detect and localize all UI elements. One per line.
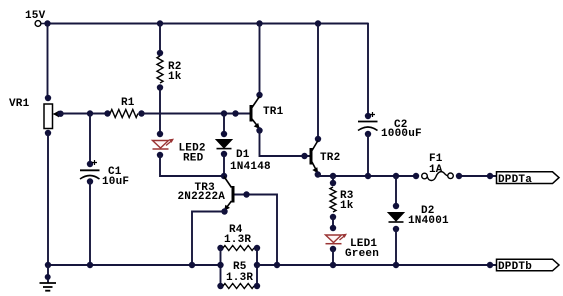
transistor TR1 [250, 92, 284, 134]
connector DPDTa [497, 172, 560, 186]
svg-text:15V: 15V [25, 10, 46, 22]
wire TR3 base to bottom right rail [235, 195, 278, 266]
svg-text:1A: 1A [429, 164, 443, 176]
capacitor C2 1000uF [358, 112, 422, 140]
node C2 rail junction [365, 173, 371, 179]
svg-text:RED: RED [183, 153, 204, 165]
capacitor C1 10uF [80, 160, 129, 188]
node TR3 emitter drop junction [189, 262, 195, 268]
wire TR1 emitter to TR2 base [260, 131, 311, 157]
node LED1 bottom junction [330, 262, 336, 268]
node D2 bottom junction [393, 262, 399, 268]
wire rail to D2 [395, 176, 397, 206]
wire LED2 to mid rail corner [160, 155, 224, 176]
transistor TR2 [310, 136, 341, 178]
svg-text:Green: Green [345, 248, 379, 260]
svg-text:10uF: 10uF [102, 176, 129, 188]
svg-text:VR1: VR1 [9, 98, 30, 110]
wire LED1 to bottom rail [332, 249, 334, 265]
svg-text:DPDTa: DPDTa [498, 174, 532, 186]
node left sense junction [217, 262, 223, 268]
wire D2 to bottom rail [395, 227, 397, 265]
fuse F1 1A [413, 153, 462, 181]
diode D2 1N4001 [388, 203, 449, 232]
svg-text:D1: D1 [236, 149, 250, 161]
node 15V terminal [25, 10, 51, 27]
wire D1 to mid rail [223, 154, 225, 176]
node R3 rail junction [330, 173, 336, 179]
node TR3 base drop junction [274, 262, 280, 268]
node D1 / TR3 collector junction [221, 173, 227, 179]
node TR1 collector rail junction [256, 20, 262, 26]
svg-text:1N4148: 1N4148 [230, 161, 271, 173]
connector DPDTb [497, 259, 560, 273]
wire top rail 15V [48, 23, 369, 25]
node DPDTa junction [487, 173, 493, 179]
wire R4/R5 left vertical [220, 248, 222, 286]
wire R2 to LED2 (crosses R1 wire, no junction) [159, 88, 161, 135]
wire junction to D1 [223, 114, 225, 135]
wire C1 to bottom rail [89, 182, 91, 266]
wire bottom right rail [257, 264, 497, 266]
node TR3 base pin dot [243, 191, 249, 197]
node junction above D1 [221, 110, 227, 116]
wire C2 to mid rail [367, 134, 369, 176]
wire VR1 bottom to ground rail [47, 133, 49, 265]
resistor R1 [104, 97, 144, 118]
resistor R3 1k [330, 180, 354, 220]
resistor R2 1k [157, 50, 182, 91]
wire fuse to DPDTa [459, 175, 497, 177]
svg-text:1N4001: 1N4001 [408, 215, 449, 227]
node R2 top rail junction [157, 20, 163, 26]
svg-text:2N2222A: 2N2222A [178, 191, 226, 203]
LED LED1 Green [326, 225, 380, 260]
svg-text:1k: 1k [340, 200, 354, 212]
wire rail to TR1 collector [259, 24, 261, 96]
transistor TR3 2N2222A (mirrored) [178, 177, 235, 215]
node D2 rail junction [393, 173, 399, 179]
wire rail to R3 [332, 176, 334, 183]
svg-text:1.3R: 1.3R [224, 234, 251, 246]
node DPDTb junction [487, 262, 493, 268]
node C1 branch junction [87, 110, 93, 116]
potentiometer VR1 [9, 95, 64, 136]
node TR2 base pin dot [301, 153, 307, 159]
wire left rail down to VR1 [47, 24, 49, 99]
wire TR2 emitter to right mid rail [318, 175, 416, 177]
wire rail to R2 [159, 24, 161, 54]
node C1 bottom junction [87, 262, 93, 268]
svg-text:1k: 1k [168, 71, 182, 83]
node right sense junction [254, 262, 260, 268]
node TR1 base pin dot [232, 110, 238, 116]
wire C2 drop from top rail [367, 23, 369, 116]
node bottom left corner [45, 262, 51, 268]
wire wiper to R1 and TR1 base [61, 113, 108, 115]
wire rail to TR2 collector [317, 24, 319, 140]
ground [40, 265, 57, 291]
LED LED2 RED [153, 131, 206, 165]
wire TR3 emitter to bottom left rail [192, 212, 225, 266]
svg-text:1.3R: 1.3R [226, 272, 253, 284]
wire R1 to TR1 base [142, 113, 250, 115]
wire bottom left rail [48, 264, 221, 266]
resistor R4 1.3R [217, 224, 260, 251]
wire C1 branch [89, 114, 91, 165]
svg-text:1000uF: 1000uF [381, 128, 422, 140]
svg-text:DPDTb: DPDTb [498, 261, 532, 273]
wire R4/R5 right vertical [256, 248, 258, 286]
resistor R5 1.3R [217, 261, 260, 289]
diode D1 1N4148 [216, 131, 271, 173]
node TR2 collector rail junction [315, 20, 321, 26]
svg-text:TR1: TR1 [263, 106, 284, 118]
wire R3 to LED1 [332, 217, 334, 228]
svg-text:R1: R1 [121, 97, 135, 109]
svg-text:TR2: TR2 [320, 152, 340, 164]
